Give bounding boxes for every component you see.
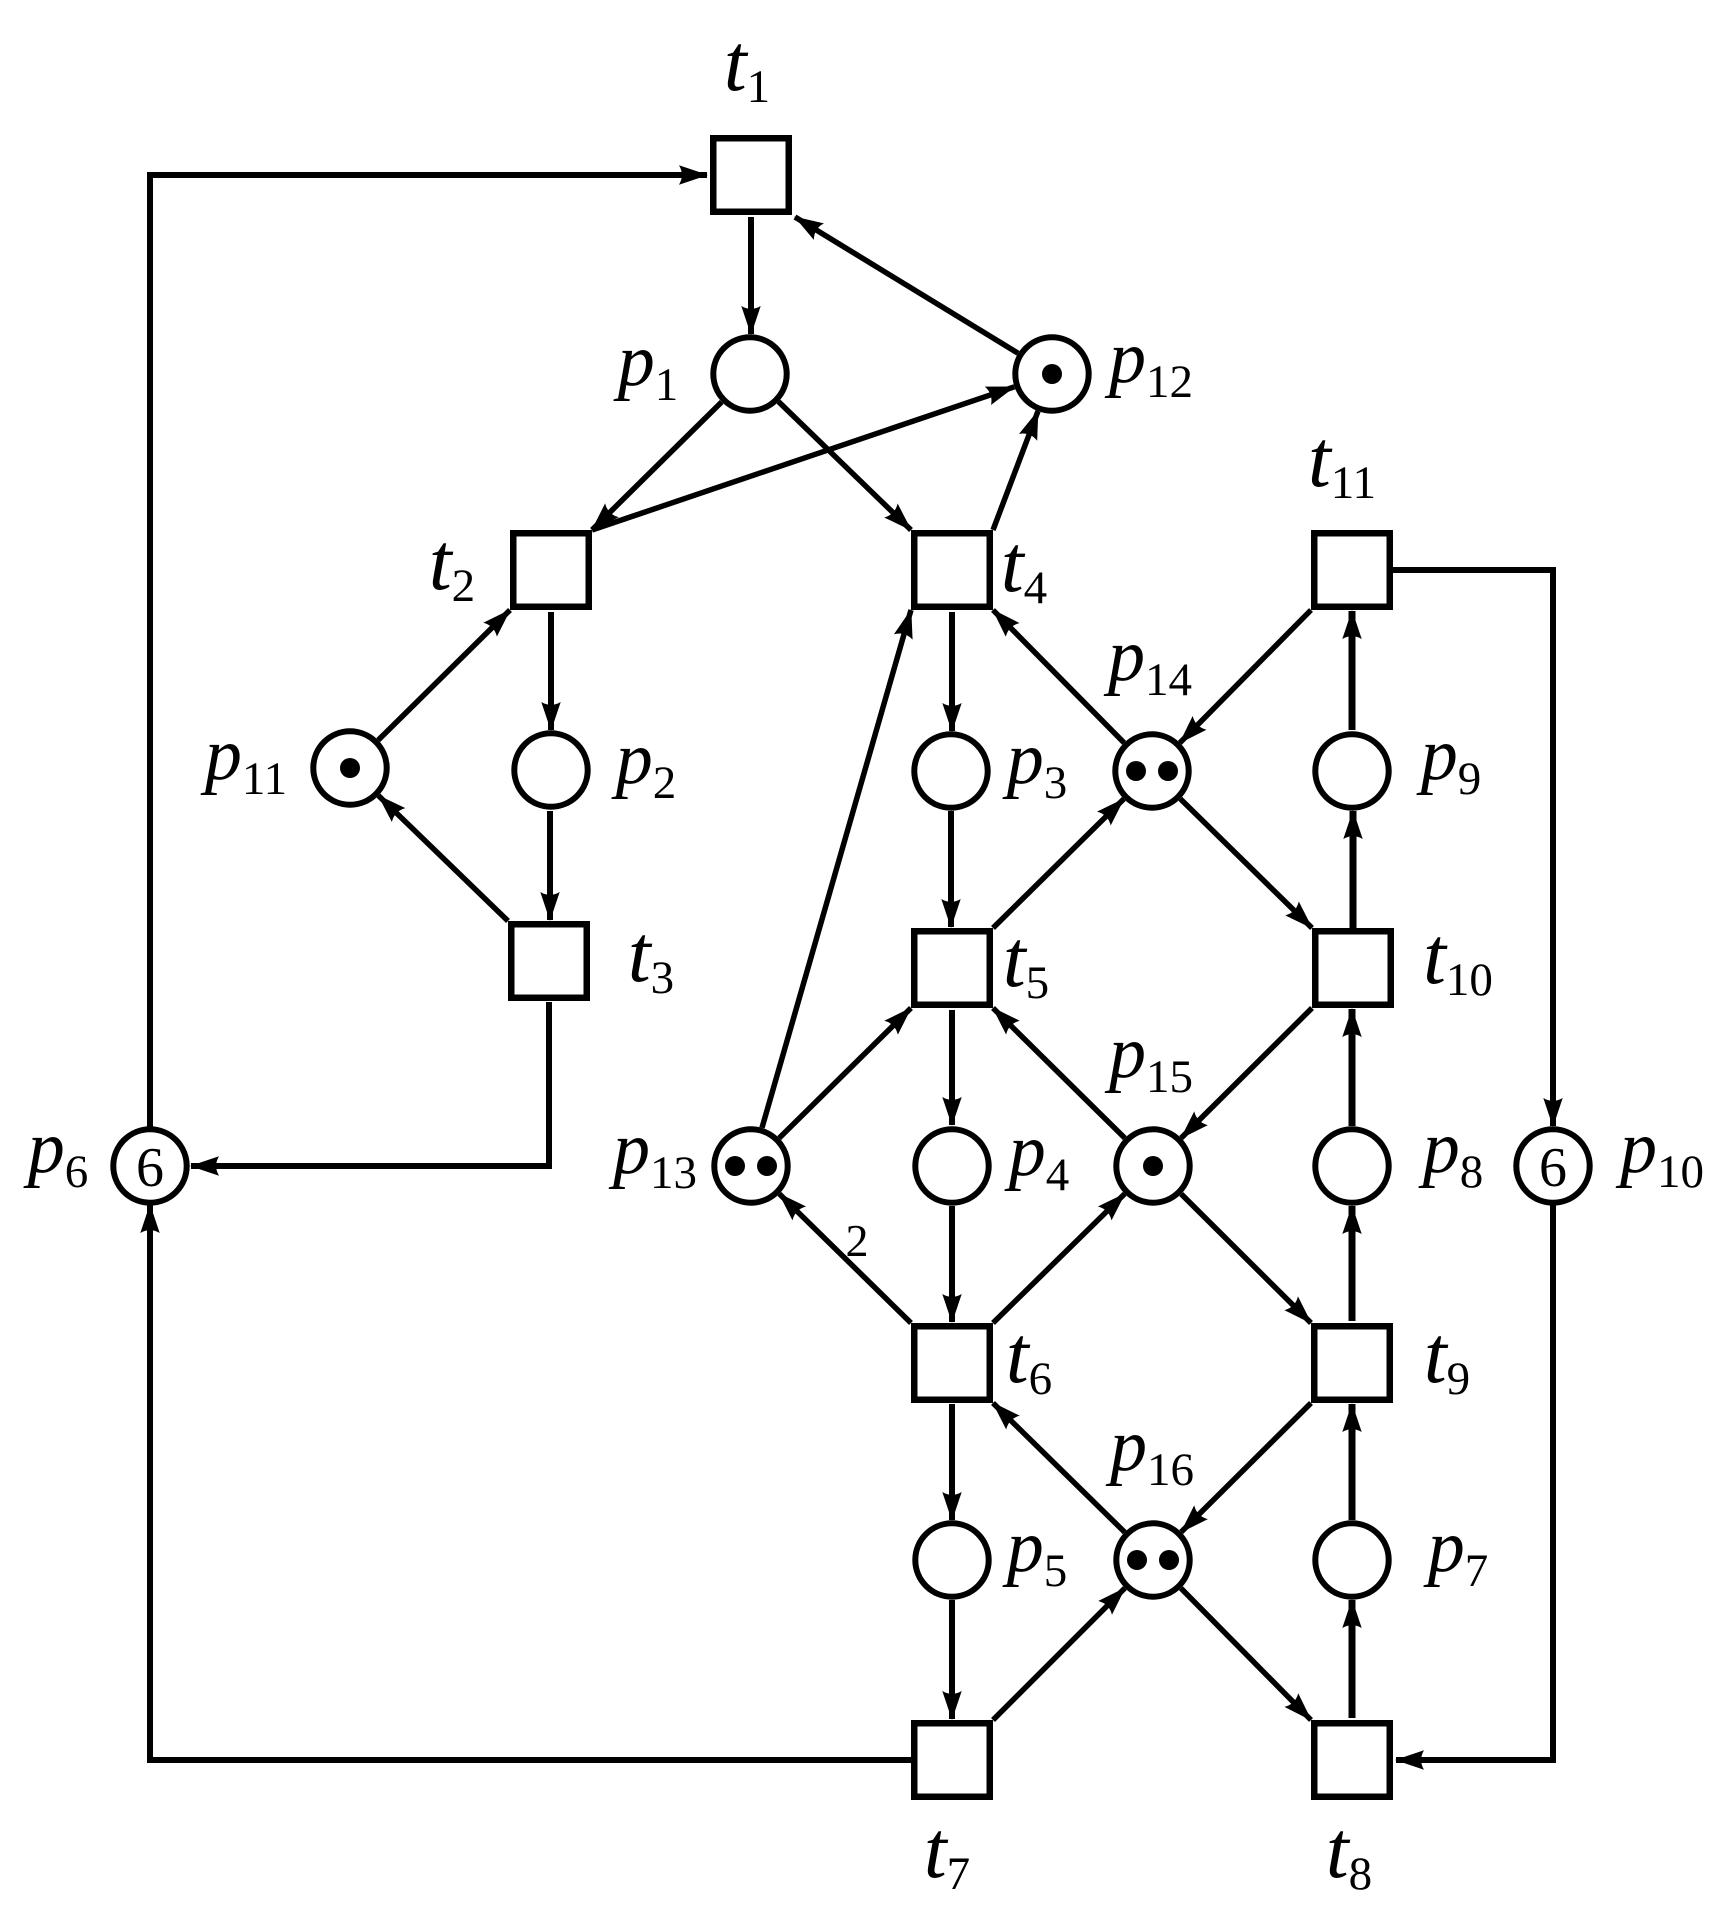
arc p14 to t4 — [993, 610, 1124, 743]
place p16 — [1116, 1523, 1189, 1596]
arc t11 to p14 — [1180, 610, 1311, 743]
arc p15 to t5 — [993, 1008, 1125, 1138]
arc p5 to t7 — [949, 1600, 955, 1719]
arc p9 to t11 — [1349, 611, 1356, 730]
place p8 — [1315, 1129, 1388, 1202]
wire p10 to t8 — [1396, 1205, 1553, 1760]
transition t6 — [914, 1326, 990, 1400]
arc p15 to t9 — [1181, 1194, 1311, 1323]
token in p11 — [340, 758, 360, 778]
place p10 — [1516, 1129, 1589, 1202]
arc t9 to p8 — [1349, 1206, 1356, 1321]
arc t1 to p1 — [748, 217, 754, 334]
place p1 — [713, 337, 786, 410]
arc p11 to t2 — [378, 610, 510, 740]
token in p12 — [1042, 364, 1062, 384]
arc p13 to t4 — [762, 610, 911, 1128]
arc t5 to p4 — [949, 1010, 955, 1125]
svg-text:2: 2 — [846, 1215, 869, 1266]
arc p13 to t5 — [779, 1008, 911, 1138]
tokens (2) in p14 — [1126, 761, 1146, 781]
arc p3 to t5 — [948, 811, 954, 927]
arc t7 to p16 — [993, 1588, 1125, 1720]
transition t4 — [914, 533, 990, 607]
place p5 — [915, 1523, 988, 1596]
arc t2 to p2 — [548, 612, 554, 730]
arc p12 to t1 — [795, 217, 1018, 353]
arc t2 to p12 — [592, 387, 1014, 530]
place p14 — [1115, 734, 1188, 807]
arc t6 to p13 weight 2 — [779, 1194, 911, 1323]
wire t11 to p10 (right loop) — [1392, 570, 1553, 1126]
place p15 — [1116, 1129, 1189, 1202]
transition t5 — [914, 931, 990, 1005]
transition t9 — [1314, 1326, 1390, 1400]
arc p2 to t3 — [547, 811, 553, 920]
arc t4 to p12 — [993, 411, 1038, 530]
arc p16 to t8 — [1181, 1588, 1311, 1720]
place p3 — [914, 734, 987, 807]
transition t7 — [914, 1723, 990, 1797]
wire p6 to t1 (left loop) — [150, 175, 707, 1127]
arc p4 to t6 — [949, 1206, 955, 1322]
svg-text:6: 6 — [136, 1137, 164, 1199]
transition t11 — [1314, 533, 1390, 607]
transition t2 — [513, 533, 589, 607]
transition t10 — [1315, 931, 1391, 1005]
place p2 — [514, 733, 587, 806]
arc t4 to p3 — [949, 612, 955, 731]
place p13 — [714, 1129, 787, 1202]
tokens (2) in p16 — [1127, 1550, 1147, 1570]
arc p1 to t4 — [779, 402, 912, 530]
place p7 — [1315, 1523, 1388, 1596]
place p9 — [1315, 734, 1388, 807]
arc p1 to t2 — [592, 402, 722, 530]
arc p14 to t10 — [1180, 799, 1312, 928]
tokens (2) in p13 — [725, 1156, 745, 1176]
arc t10 to p9 — [1350, 811, 1357, 928]
transition t8 — [1314, 1723, 1390, 1797]
arc t10 to p15 — [1181, 1008, 1312, 1138]
arc t8 to p7 — [1349, 1600, 1356, 1718]
transition t3 — [511, 924, 587, 998]
arc p7 to t9 — [1349, 1404, 1356, 1520]
arc t9 to p16 — [1181, 1403, 1311, 1532]
place p4 — [915, 1129, 988, 1202]
token in p15 — [1143, 1156, 1163, 1176]
place p12 — [1015, 337, 1088, 410]
arc p16 to t6 — [993, 1403, 1125, 1532]
arc t6 to p15 — [993, 1194, 1125, 1323]
place p11 — [313, 731, 386, 804]
svg-text:6: 6 — [1539, 1137, 1567, 1199]
arc t3 to p11 — [379, 796, 509, 921]
transition t1 — [713, 138, 789, 212]
wire t3 to p6 — [191, 1002, 549, 1166]
arc t5 to p14 — [993, 799, 1124, 928]
arc p8 to t10 — [1349, 1009, 1356, 1126]
place p6 — [113, 1129, 186, 1202]
wire t7 to p6 (bottom-left loop) — [150, 1205, 911, 1760]
arc t6 to p5 — [949, 1404, 955, 1520]
